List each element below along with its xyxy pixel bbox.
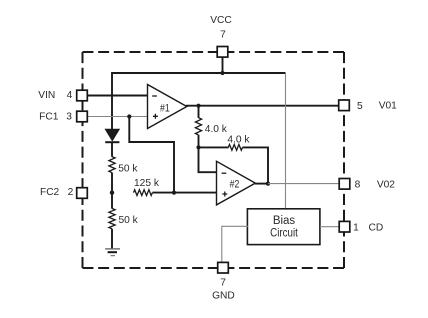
op-amp U1 [148, 85, 187, 129]
svg-text:#2: #2 [230, 179, 240, 191]
resistor R1 50k (upper) [109, 157, 115, 173]
wire 4.0k bottom lead [198, 135, 200, 148]
diode D1 anode-down [105, 129, 119, 141]
op-amp U2 [217, 161, 256, 205]
svg-text:4.0 k: 4.0 k [227, 134, 250, 145]
svg-text:3: 3 [66, 111, 72, 122]
wire junction down and into U2 inverting input [199, 147, 217, 172]
wire bias circuit to GND pin (light) [222, 226, 249, 262]
pin 2 FC2 square [77, 188, 88, 199]
svg-text:7: 7 [220, 277, 226, 288]
svg-text:Circuit: Circuit [270, 227, 298, 240]
wire junction to 4.0k feedback resistor [199, 146, 229, 148]
pin 7 GND square [218, 262, 229, 273]
resistor R5 4.0k (horizontal feedback) [228, 145, 242, 151]
svg-text:7: 7 [220, 30, 226, 41]
resistor R4 4.0k (vertical) [195, 118, 201, 135]
svg-text:#1: #1 [160, 103, 170, 115]
svg-text:VCC: VCC [210, 15, 232, 26]
wire FC1 to op-amp U1 non-inverting input (light) [87, 116, 147, 118]
wire VIN to op-amp U1 inverting input [87, 95, 147, 97]
node U2 output junction [266, 182, 270, 186]
wire 50k to ground [111, 229, 113, 249]
wire 125k to op-amp U2 non-inverting input [152, 192, 216, 194]
node U2 + input junction [172, 191, 176, 195]
node VCC rail junction [220, 71, 224, 75]
wire U2 output stub [255, 183, 269, 185]
wire VCC rail [111, 72, 285, 74]
svg-text:125 k: 125 k [134, 178, 160, 189]
svg-text:4.0 k: 4.0 k [205, 124, 228, 135]
pin 4 VIN square [77, 90, 88, 101]
wire FC1 branch down and over to op-amp U2 + net [129, 117, 174, 193]
svg-text:FC1: FC1 [39, 111, 59, 122]
svg-text:CD: CD [369, 222, 384, 233]
diode D1 cathode bar [105, 141, 119, 143]
node feedback junction [196, 145, 200, 149]
wire VCC rail down to bias circuit (light) [285, 74, 287, 209]
wire diode to resistor 50k top [111, 142, 113, 157]
svg-text:FC2: FC2 [40, 187, 60, 198]
ground symbol [105, 249, 120, 256]
wire U2 output to V02 pin (light) [268, 183, 339, 185]
resistor R2 50k (lower) [109, 208, 115, 228]
svg-text:V01: V01 [379, 101, 397, 112]
wire between 50k resistors [111, 173, 113, 209]
wire U1 output down to 4.0k [198, 106, 200, 118]
pin 1 CD square [339, 221, 350, 232]
svg-text:GND: GND [212, 291, 235, 302]
svg-text:Bias: Bias [273, 215, 296, 227]
wire VCC pin stub [222, 57, 224, 74]
svg-text:50 k: 50 k [118, 163, 138, 174]
svg-text:1: 1 [353, 222, 359, 233]
wire 4.0k to U2 output [243, 147, 269, 183]
resistor R3 125k [134, 190, 153, 196]
pin 3 FC1 square [77, 111, 88, 122]
svg-text:2: 2 [68, 187, 74, 198]
svg-text:4: 4 [67, 90, 73, 101]
wire bias circuit to CD pin (light) [320, 226, 340, 228]
node FC1 junction [127, 114, 131, 118]
svg-text:V02: V02 [377, 179, 395, 190]
bias circuit block [247, 209, 320, 245]
pin 8 V02 square [339, 179, 350, 190]
svg-text:5: 5 [357, 101, 363, 112]
wire U1 output to V01 pin [186, 105, 339, 107]
pin 5 V01 square [339, 100, 350, 111]
svg-text:8: 8 [355, 180, 361, 191]
node FC2 divider junction [110, 191, 114, 195]
svg-text:50 k: 50 k [119, 215, 139, 226]
pin 7 VCC square [217, 47, 228, 58]
svg-text:VIN: VIN [38, 90, 55, 101]
node U1 output junction [196, 104, 200, 108]
wire rail corner down to diode [111, 72, 113, 130]
dashed IC boundary box [83, 52, 345, 268]
